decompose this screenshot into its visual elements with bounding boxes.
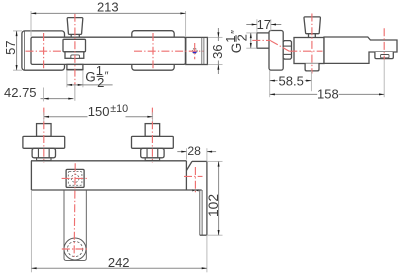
svg-text:57: 57: [3, 40, 18, 54]
svg-text:58.5: 58.5: [279, 73, 304, 88]
svg-text:150: 150: [88, 104, 110, 119]
svg-text:158: 158: [317, 87, 339, 102]
svg-text:242: 242: [108, 255, 130, 270]
svg-text:102: 102: [206, 194, 221, 217]
svg-text:36: 36: [210, 44, 225, 58]
svg-text:±10: ±10: [110, 103, 128, 115]
svg-text:17: 17: [257, 17, 271, 32]
svg-text:213: 213: [97, 0, 119, 15]
svg-text:42.75: 42.75: [4, 85, 37, 100]
svg-text:28: 28: [187, 144, 201, 158]
